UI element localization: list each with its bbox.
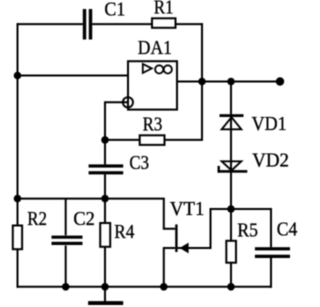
wire bottom rail: [17, 286, 272, 288]
wire C3 bottom lead: [104, 174, 106, 198]
wire R4 top lead: [104, 199, 106, 223]
wire C2 bottom lead: [65, 246, 67, 287]
svg-text:R5: R5: [237, 220, 258, 242]
node: output / R1 / feedback junction: [198, 78, 206, 86]
wire mid horizontal rail y=198.6: [18, 198, 165, 200]
resistor R1: [152, 18, 176, 28]
resistor R5: [226, 241, 236, 263]
node: VD2 / R5 / emitter / C4 junction: [227, 205, 235, 213]
wire R3 left lead to node: [104, 139, 140, 141]
wire transistor collector bend: [164, 199, 175, 229]
transistor VT1 base lead to ground: [164, 248, 175, 288]
ground: [88, 301, 123, 305]
wire R4 bottom lead: [104, 247, 106, 287]
node: R5 / bottom rail junction: [227, 283, 235, 291]
wire from R1 right to top-right corner: [176, 23, 204, 25]
transistor VT1 emitter wire: [178, 209, 231, 248]
node: output terminal dot: [276, 77, 284, 85]
wire top rail from left rail to C1 left plate: [17, 23, 83, 25]
node: output / VD1 chain junction: [227, 78, 235, 86]
node: left rail / mid rail junction: [14, 195, 22, 203]
op-amp DA1 infinity symbol: [155, 65, 172, 73]
node: C2 / bottom rail junction: [62, 283, 70, 291]
wire left rail bottom (R2 to bottom rail): [17, 249, 19, 288]
zener diode VD2 cathode bar with left tick: [218, 166, 248, 173]
node: C3 / R4 / mid rail junction: [101, 195, 109, 203]
diode VD1 cathode bar: [220, 114, 244, 117]
svg-text:R4: R4: [114, 221, 134, 243]
zener diode VD2 triangle: [222, 161, 242, 170]
node: R4 / ground / bottom rail junction: [101, 283, 109, 291]
capacitor C2: [52, 236, 83, 245]
node: R3 / inverting input / C3 junction: [101, 136, 109, 144]
resistor R4: [100, 223, 110, 247]
diode VD1 triangle: [222, 117, 242, 129]
transistor VT1 base bar: [175, 224, 177, 252]
wire right vertical from top corner down through output node to R3 level: [201, 23, 203, 140]
ground lead: [104, 287, 106, 302]
node: left rail / op-amp input junction: [14, 72, 22, 80]
node: VT1 base / bottom rail junction: [160, 283, 168, 291]
resistor R3: [140, 135, 165, 145]
transistor VT1 emitter arrow (PNP): [180, 243, 189, 254]
svg-text:VD1: VD1: [252, 113, 287, 135]
svg-text:R3: R3: [143, 114, 163, 136]
op-amp DA1 inverting input circle: [123, 97, 133, 107]
wire C2 top lead: [65, 199, 67, 236]
op-amp DA1 triangle symbol: [143, 64, 152, 73]
wire inverting input branch: node up and right to circle: [105, 102, 128, 140]
wire C3 top lead: [104, 140, 106, 165]
wire R5 bottom lead: [230, 263, 232, 287]
svg-text:C2: C2: [73, 208, 95, 230]
resistor R2: [13, 226, 22, 250]
capacitor C4: [255, 247, 290, 258]
wire diode chain vertical from output node down to R5: [230, 82, 232, 241]
svg-text:R2: R2: [27, 208, 47, 230]
capacitor C1: [83, 9, 92, 40]
wire non-inverting input from left rail to op-amp: [18, 75, 129, 77]
svg-text:C1: C1: [104, 0, 125, 21]
svg-text:C4: C4: [277, 219, 298, 241]
svg-text:C3: C3: [129, 152, 149, 174]
op-amp DA1 body: [128, 61, 177, 109]
svg-text:DA1: DA1: [138, 37, 172, 59]
wire C4 bottom lead: [270, 258, 272, 288]
wire C4 branch: node right then down: [231, 209, 271, 247]
svg-text:VT1: VT1: [170, 198, 205, 220]
wire top rail from C1 right plate to R1: [92, 23, 152, 25]
svg-text:R1: R1: [154, 0, 174, 19]
capacitor C3: [89, 164, 124, 174]
wire R3 right lead: [165, 139, 204, 141]
left rail vertical (top corner to R2 top): [17, 23, 19, 225]
wire op-amp output: [177, 81, 280, 83]
svg-text:VD2: VD2: [252, 150, 289, 172]
